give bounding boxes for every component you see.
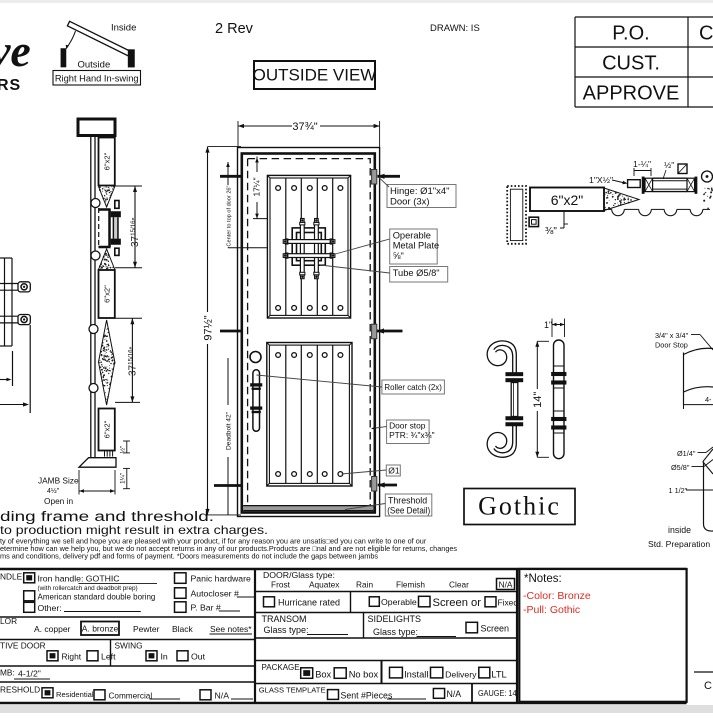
svg-text:inside: inside — [668, 525, 691, 535]
svg-text:Panic hardware: Panic hardware — [191, 574, 252, 584]
svg-text:P. Bar #: P. Bar # — [191, 602, 221, 612]
svg-text:Operable: Operable — [381, 597, 417, 607]
svg-text:4-1/2": 4-1/2" — [18, 669, 41, 679]
svg-text:37¾": 37¾" — [292, 121, 317, 133]
svg-text:6"x2": 6"x2" — [103, 152, 112, 170]
svg-text:P.O.: P.O. — [612, 23, 649, 45]
svg-text:No box: No box — [349, 670, 379, 680]
svg-text:TIVE DOOR: TIVE DOOR — [0, 641, 46, 651]
svg-text:ding frame and threshold.: ding frame and threshold. — [0, 509, 214, 524]
svg-text:Center to top of door 26": Center to top of door 26" — [227, 185, 233, 246]
svg-text:Threshold: Threshold — [388, 495, 427, 505]
svg-text:6"x2": 6"x2" — [103, 285, 112, 303]
svg-text:*Notes:: *Notes: — [524, 573, 562, 585]
svg-text:JAMB Size: JAMB Size — [38, 476, 79, 486]
svg-text:½": ½" — [664, 160, 674, 170]
svg-text:Screen or: Screen or — [433, 597, 482, 609]
svg-text:3/4" x 3/4": 3/4" x 3/4" — [655, 331, 689, 340]
svg-text:Box: Box — [315, 670, 331, 680]
svg-text:Clear: Clear — [449, 580, 469, 590]
svg-text:17¼": 17¼" — [252, 177, 262, 196]
svg-text:Right: Right — [62, 652, 82, 662]
svg-text:GLASS TEMPLATE: GLASS TEMPLATE — [259, 686, 326, 695]
svg-text:N/A: N/A — [215, 691, 230, 701]
svg-text:N/A: N/A — [499, 580, 513, 590]
svg-text:NDLE: NDLE — [0, 572, 23, 582]
svg-text:Out: Out — [191, 652, 206, 662]
svg-text:See notes*: See notes* — [210, 624, 252, 634]
svg-text:OUTSIDE VIEW: OUTSIDE VIEW — [253, 66, 377, 85]
svg-text:PTR: ¾"x¾": PTR: ¾"x¾" — [389, 430, 435, 440]
svg-text:(See Detail): (See Detail) — [387, 506, 430, 516]
svg-text:Right Hand In-swing: Right Hand In-swing — [55, 73, 139, 83]
svg-text:Open in: Open in — [44, 496, 73, 506]
svg-text:Fixed: Fixed — [498, 598, 519, 608]
svg-text:Roller catch (2x): Roller catch (2x) — [384, 382, 442, 392]
svg-text:TRANSOM: TRANSOM — [262, 614, 307, 624]
svg-text:Commercial: Commercial — [109, 692, 153, 701]
svg-text:4½": 4½" — [47, 487, 60, 495]
svg-text:Autocloser #: Autocloser # — [191, 588, 239, 598]
svg-text:Sent #Pieces: Sent #Pieces — [341, 690, 393, 700]
svg-text:Hurricane rated: Hurricane rated — [278, 598, 340, 608]
svg-text:Left: Left — [101, 652, 116, 662]
svg-text:6"x2": 6"x2" — [551, 192, 584, 208]
svg-text:to production might result in: to production might result in extra char… — [0, 523, 268, 537]
svg-text:Residential: Residential — [56, 690, 94, 699]
svg-text:N/A: N/A — [447, 689, 462, 699]
svg-text:Pewter: Pewter — [133, 624, 160, 634]
svg-text:1"X½": 1"X½" — [589, 175, 613, 185]
svg-text:ms and conditions, delivery pd: ms and conditions, delivery pdf and form… — [0, 552, 378, 561]
svg-text:LOR: LOR — [0, 616, 17, 626]
svg-text:CUST.: CUST. — [602, 53, 660, 75]
svg-text:Tube Ø5/8": Tube Ø5/8" — [393, 268, 440, 278]
svg-text:Glass type:: Glass type: — [373, 627, 418, 637]
svg-text:6"x2": 6"x2" — [103, 420, 112, 438]
svg-text:-Color: Bronze: -Color: Bronze — [523, 590, 591, 602]
svg-text:⅝": ⅝" — [393, 251, 404, 261]
svg-text:-Pull: Gothic: -Pull: Gothic — [523, 604, 580, 616]
svg-text:4-: 4- — [705, 395, 712, 404]
svg-text:Flemish: Flemish — [396, 580, 425, 590]
svg-text:APPROVE: APPROVE — [583, 83, 680, 105]
svg-text:Ø1/4": Ø1/4" — [677, 449, 696, 458]
svg-text:ve: ve — [0, 25, 31, 76]
svg-text:GAUGE: 14: GAUGE: 14 — [478, 688, 517, 698]
svg-text:Operable: Operable — [393, 230, 431, 240]
svg-text:Install: Install — [404, 670, 428, 680]
svg-text:A. copper: A. copper — [34, 624, 71, 634]
svg-text:Inside: Inside — [111, 22, 136, 33]
svg-text:Hinge: Ø1"x4": Hinge: Ø1"x4" — [390, 186, 450, 197]
svg-text:Gothic: Gothic — [478, 492, 561, 521]
svg-text:Rain: Rain — [356, 580, 373, 590]
svg-text:Door Stop: Door Stop — [655, 341, 688, 350]
svg-text:Metal Plate: Metal Plate — [393, 241, 440, 251]
svg-text:Other:: Other: — [38, 603, 62, 613]
svg-text:1": 1" — [544, 320, 552, 330]
svg-text:RS: RS — [0, 77, 21, 94]
svg-text:14": 14" — [532, 392, 544, 408]
svg-text:Frost: Frost — [271, 580, 291, 590]
svg-text:½": ½" — [119, 446, 126, 453]
svg-text:C: C — [704, 680, 712, 692]
svg-text:American standard double borin: American standard double boring — [38, 592, 156, 601]
svg-text:Black: Black — [172, 624, 194, 634]
svg-text:In: In — [161, 652, 168, 662]
svg-text:LTL: LTL — [491, 670, 506, 680]
svg-text:1¼": 1¼" — [119, 473, 126, 484]
svg-text:Delivery: Delivery — [445, 670, 477, 680]
svg-text:A. bronze: A. bronze — [82, 624, 119, 634]
svg-text:DRAWN: IS: DRAWN: IS — [430, 23, 480, 34]
svg-text:SWING: SWING — [115, 641, 143, 651]
svg-text:Door (3x): Door (3x) — [390, 197, 430, 208]
svg-text:2 Rev: 2 Rev — [215, 21, 254, 37]
svg-text:SIDELIGHTS: SIDELIGHTS — [368, 614, 422, 624]
svg-text:97½": 97½" — [203, 315, 215, 340]
svg-text:Outside: Outside — [78, 60, 111, 71]
svg-text:MB:: MB: — [0, 668, 15, 678]
svg-text:Ø5/8": Ø5/8" — [671, 463, 690, 472]
svg-text:(with rollercatch and deadbolt: (with rollercatch and deadbolt prep) — [38, 585, 138, 592]
svg-text:Aquatex: Aquatex — [309, 580, 340, 590]
svg-text:Ø1: Ø1 — [388, 466, 400, 476]
svg-text:Glass type:: Glass type: — [264, 625, 309, 635]
svg-text:Screen: Screen — [481, 624, 510, 634]
svg-text:PACKAGE: PACKAGE — [262, 663, 300, 672]
svg-text:RESHOLD: RESHOLD — [0, 685, 40, 695]
svg-text:C: C — [699, 23, 713, 45]
svg-text:DOOR/Glass type:: DOOR/Glass type: — [263, 570, 335, 580]
svg-text:1 1/2": 1 1/2" — [669, 486, 688, 495]
svg-text:Deadbolt 42": Deadbolt 42" — [226, 411, 233, 450]
svg-text:1-¼": 1-¼" — [633, 159, 651, 169]
svg-text:⅜": ⅜" — [545, 226, 557, 237]
svg-text:Std. Preparation: Std. Preparation — [648, 539, 710, 549]
svg-text:Iron handle: GOTHIC: Iron handle: GOTHIC — [38, 574, 120, 584]
